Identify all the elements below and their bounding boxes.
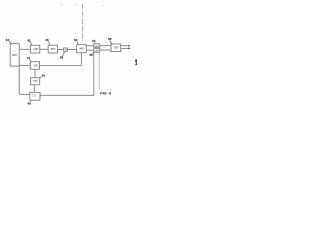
block 41 oscillator [30, 62, 39, 69]
svg-text:LPF: LPF [95, 46, 100, 48]
block 45 control [30, 92, 40, 100]
antenna center line [82, 4, 84, 41]
svg-text:BPF: BPF [51, 49, 56, 51]
svg-text:FIG. 4: FIG. 4 [100, 91, 112, 96]
wire A to oscillator row [19, 65, 30, 67]
wire E to F [86, 45, 94, 47]
svg-text:45: 45 [27, 102, 31, 106]
svg-text:LPF: LPF [95, 51, 100, 53]
leader 56 [92, 52, 93, 54]
page speck right [76, 4, 77, 5]
svg-text:ANT: ANT [12, 54, 17, 57]
wire F to H [100, 45, 111, 47]
svg-text:MIX: MIX [80, 48, 85, 50]
output arrow lower [121, 47, 129, 49]
svg-text:OSC: OSC [33, 65, 38, 67]
leader 43 [40, 77, 42, 79]
mixer 48 small box [64, 48, 68, 51]
block 54 upper small [94, 44, 100, 47]
page speck left [61, 4, 63, 5]
output arrow upper [121, 45, 129, 47]
wire J to K [33, 85, 35, 93]
wire E bottom down [80, 53, 82, 66]
leader 42 [30, 42, 31, 46]
wire E to G [86, 49, 94, 51]
block 46 filter [48, 45, 57, 53]
block 42 amplifier [30, 45, 40, 53]
leader 46 [48, 41, 49, 45]
svg-text:DIV: DIV [33, 81, 37, 83]
svg-text:DET: DET [114, 47, 119, 49]
leader 45 [30, 100, 31, 101]
wire G to H [100, 49, 111, 51]
left down wire from block 10 [19, 66, 30, 94]
svg-text:2: 2 [135, 62, 137, 66]
wire across to oscillator [40, 65, 82, 67]
leader 54 [93, 42, 96, 44]
vertical V2 from G down fading [98, 52, 100, 89]
svg-text:43: 43 [42, 73, 46, 77]
leader 41 [30, 59, 31, 62]
long bottom wire K to V1 [40, 94, 94, 96]
block 10 (tall source box) [10, 44, 19, 66]
vertical V1 from G down [93, 52, 95, 95]
leader 50 [77, 41, 78, 45]
block 58 output amp [111, 44, 121, 52]
wire B to C [40, 48, 48, 50]
leader 10 [9, 41, 11, 44]
page speck mid [103, 5, 104, 6]
block 50 IF amp [77, 45, 87, 53]
svg-text:CTL: CTL [32, 95, 37, 97]
block 43 divider [31, 78, 40, 85]
leader 48 [62, 52, 64, 56]
svg-text:AMP: AMP [33, 48, 38, 51]
leader 58 [110, 41, 113, 44]
wire C to mixer [58, 49, 64, 51]
block 56 lower small [94, 49, 100, 53]
wire mixer to E [67, 49, 76, 51]
wire osc to J [34, 69, 36, 78]
wire A to B [19, 48, 30, 50]
svg-text:10: 10 [6, 38, 10, 42]
